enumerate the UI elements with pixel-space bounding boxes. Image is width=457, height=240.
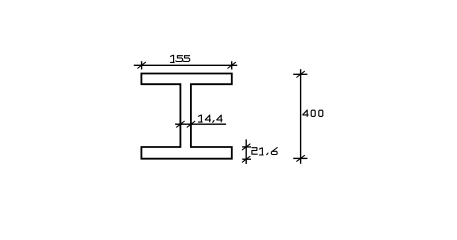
dimension 21.6: dim line	[245, 139, 247, 164]
dimension 155: left oblique tick	[137, 62, 145, 68]
dimension 14.4: left oblique tick	[176, 121, 184, 127]
dimension 14.4: right oblique tick	[187, 121, 195, 127]
dimension 21.6: text "21.6"	[252, 148, 277, 156]
dimension 400: text "400"	[303, 110, 323, 116]
dimension 21.6: top extension line	[242, 146, 251, 148]
dimension 155: right oblique tick	[228, 62, 236, 68]
dimension 400: bottom oblique tick	[296, 155, 304, 161]
dimension 14.4: text "14.4"	[198, 115, 222, 122]
dimension 21.6: bottom oblique tick	[242, 156, 250, 162]
dimension 155: text "155"	[171, 55, 190, 62]
dimension 400: bottom extension line	[293, 157, 307, 159]
dimension 400: top oblique tick	[296, 71, 304, 77]
dimension 400: dim line	[300, 69, 302, 164]
dimension 155: right extension line	[231, 61, 233, 69]
dimension 21.6: top oblique tick	[242, 144, 250, 150]
dimension 400: top extension line	[293, 73, 307, 75]
dimension 21.6: bottom extension line	[242, 158, 251, 160]
I-beam section outline	[141, 74, 231, 159]
dimension 155: left extension line	[141, 61, 143, 69]
dimension 155: dim line	[134, 64, 237, 66]
dimension 14.4: leader line	[175, 123, 226, 125]
